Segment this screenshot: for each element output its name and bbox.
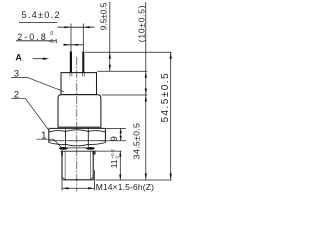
svg-text:3: 3 [14, 68, 19, 79]
svg-text:0: 0 [115, 156, 120, 159]
extension line pin right center [82, 24, 84, 52]
hex nut (item 2) [49, 128, 106, 146]
M14 extension lines [61, 181, 63, 191]
dimension 5.4 shelf line [19, 22, 57, 24]
pin roots inside block [70, 73, 84, 77]
extension line pin left center [70, 24, 72, 52]
extension line pin top [85, 51, 172, 53]
svg-text:A: A [15, 53, 22, 63]
centerline [76, 57, 78, 192]
dimension 54.5 line [170, 52, 172, 180]
M14 dimension line [62, 187, 94, 189]
extension line body top [102, 94, 148, 96]
svg-text:2: 2 [14, 89, 19, 100]
svg-text:1: 1 [41, 130, 47, 141]
text 2-0.8 0/-0.1 [17, 31, 58, 45]
dimension 9 line [120, 128, 122, 140]
svg-text:(10±0.5): (10±0.5) [136, 5, 146, 43]
extension line nut top [106, 127, 126, 129]
sealing washer (item 1) [59, 147, 96, 156]
connector block (item 3) [61, 73, 97, 95]
svg-text:34.5±0.5: 34.5±0.5 [131, 123, 141, 159]
dimension 2-0.8 underline [16, 40, 57, 42]
pin P2 (right terminal) [82, 52, 84, 73]
threaded stem M14x1.5 [62, 151, 93, 180]
svg-text:9.5±0.5: 9.5±0.5 [99, 2, 109, 30]
extension line block top [97, 70, 147, 72]
svg-text:5.4±0.2: 5.4±0.2 [22, 10, 61, 20]
extension line thread bottom [96, 179, 172, 181]
dimension 2-0.8 dimension line [63, 44, 83, 46]
view arrow A [33, 58, 49, 60]
dimension 11 line [119, 151, 121, 180]
extension line nut bottom [100, 140, 126, 142]
extension line washer bottom [95, 150, 122, 152]
leader item 1 [36, 139, 63, 149]
svg-text:-0.1: -0.1 [49, 39, 58, 45]
housing body [58, 95, 101, 128]
text 11 +0.2/0 vertical [109, 149, 120, 168]
leader item 3 [11, 78, 64, 92]
svg-text:0: 0 [50, 31, 53, 37]
svg-text:11: 11 [109, 159, 119, 168]
dimension 5.4 dimension line [57, 26, 94, 28]
svg-text:2-0.8: 2-0.8 [17, 32, 48, 42]
dimension 9.5 line [109, 2, 111, 71]
svg-text:54.5±0.5: 54.5±0.5 [160, 72, 171, 122]
dimension 10/34.5 line [145, 2, 147, 180]
pin P1 (left terminal) [70, 52, 72, 73]
svg-text:9: 9 [109, 136, 119, 141]
svg-text:M14×1.5-6h(Z): M14×1.5-6h(Z) [96, 182, 154, 192]
leader item 2 [11, 98, 49, 131]
